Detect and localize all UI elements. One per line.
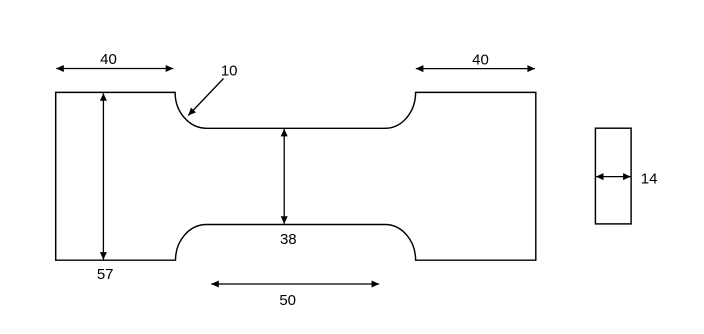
svg-text:38: 38 [280,231,297,248]
dimension line 50 (gauge length) [211,283,379,285]
svg-text:10: 10 [221,63,238,80]
svg-text:50: 50 [279,292,296,309]
svg-text:40: 40 [100,51,117,68]
dimension line 57 (grip height) [102,93,104,260]
svg-text:57: 57 [97,266,114,283]
leader arrow for fillet radius 10 [188,79,223,116]
svg-text:40: 40 [472,52,489,69]
dimension line 38 (gauge width) [283,129,285,224]
svg-text:14: 14 [641,171,658,188]
dimension line 14 (thickness) [596,176,631,178]
dimension line 40 (right grip width) [416,68,535,70]
specimen outline (dog-bone front view) [56,92,536,260]
dimension line 40 (left grip width) [56,68,173,70]
side view rectangle (thickness view) [595,128,631,224]
